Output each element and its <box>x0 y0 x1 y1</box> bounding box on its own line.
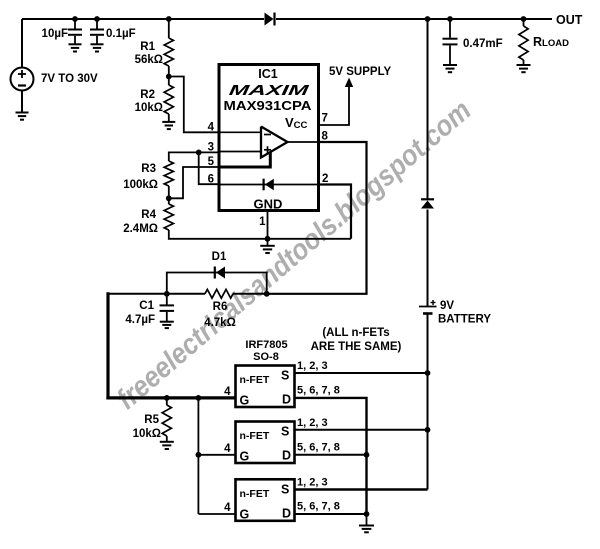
capacitor 10uF <box>68 19 82 44</box>
wire node A to pin4 <box>169 77 219 133</box>
label OUT <box>556 13 583 27</box>
svg-text:n-FET: n-FET <box>240 488 270 500</box>
pin label 8 <box>322 131 329 143</box>
label R5 10k <box>133 428 161 440</box>
wire comparator output to pin8 <box>288 141 320 143</box>
svg-text:4.7µF: 4.7µF <box>125 314 155 326</box>
label 7V TO 30V <box>41 73 98 85</box>
node dot backup diode branch <box>425 16 431 22</box>
node dot 10uF cap <box>72 16 78 22</box>
ground 0.1uF <box>91 44 104 51</box>
pin label 5 <box>208 156 215 168</box>
wire Q1 source <box>295 372 428 374</box>
ground IC pin1 <box>260 246 275 253</box>
pin label 4 Q2 <box>224 443 231 455</box>
wire pin3 to pin6 <box>199 152 219 184</box>
voltage source V1 <box>11 68 34 91</box>
pin label 1,2,3 Q3 <box>297 477 328 489</box>
resistor R4 <box>164 204 173 230</box>
op-amp U1 IC1 box outline <box>219 65 319 211</box>
label 2.4M <box>123 223 158 235</box>
svg-text:10µF: 10µF <box>42 28 68 40</box>
wire R5 top <box>166 398 168 405</box>
ground R2 <box>162 122 175 129</box>
svg-text:n-FET: n-FET <box>240 430 270 442</box>
svg-text:SO-8: SO-8 <box>253 351 279 363</box>
svg-text:10kΩ: 10kΩ <box>133 428 161 440</box>
node dot drain bus Q3 <box>364 511 370 517</box>
label all n-FETs same line1 <box>322 327 389 339</box>
svg-text:n-FET: n-FET <box>240 374 270 386</box>
svg-text:MAX931CPA: MAX931CPA <box>224 98 312 113</box>
node dot 0.47mF cap <box>447 16 453 22</box>
pin label 2 <box>322 173 328 185</box>
svg-text:R4: R4 <box>141 209 156 221</box>
battery B1 9V <box>419 300 437 314</box>
wire source to ground <box>21 91 23 113</box>
transistor Q2 n-FET <box>236 422 295 464</box>
svg-text:VCC: VCC <box>285 115 308 131</box>
svg-text:R2: R2 <box>140 89 155 101</box>
wire R5 to ground <box>166 436 168 442</box>
svg-text:IC1: IC1 <box>258 67 278 81</box>
wire Q1 drain <box>295 398 367 514</box>
diode internal hysteresis <box>264 179 274 191</box>
node dot IC pin1 ground <box>265 236 271 242</box>
wire R4 bottom to pin2 riser <box>169 230 351 239</box>
capacitor 0.1uF <box>90 19 104 44</box>
label 10k <box>135 102 163 114</box>
node B R3-R4 junction <box>166 195 172 201</box>
wire Q2 drain <box>295 454 367 456</box>
pin label 5,6,7,8 Q1 <box>297 385 340 397</box>
label all n-FETs same line2 <box>311 341 402 353</box>
svg-text:1, 2, 3: 1, 2, 3 <box>297 417 328 429</box>
wire pin1 gnd stem <box>267 239 269 246</box>
pin label 4 Q3 <box>224 502 231 514</box>
wire rail to R1 <box>168 19 170 38</box>
node dot C1 <box>164 291 170 297</box>
wire riser to pin2 <box>319 185 351 239</box>
label 4.7uF <box>125 314 155 326</box>
diode D1 <box>215 267 225 279</box>
pin label 7 <box>322 113 328 125</box>
svg-text:7V TO 30V: 7V TO 30V <box>41 73 98 85</box>
ground 0.47mF <box>443 65 457 72</box>
svg-text:S: S <box>281 482 289 496</box>
wire node B to pin5 <box>169 167 219 198</box>
svg-text:8: 8 <box>322 131 329 143</box>
label 56k <box>135 54 163 66</box>
node dot RLOAD <box>521 16 527 22</box>
label 100k <box>123 179 158 191</box>
node dot source Q2 <box>425 427 431 433</box>
wire pin3 to noninverting input <box>219 151 261 153</box>
wire Q3 drain <box>295 513 367 515</box>
diode D2 backup <box>421 199 434 208</box>
wire pin3 to R3 <box>169 152 219 161</box>
label 10uF <box>42 28 68 40</box>
wire battery to source bus <box>427 314 429 490</box>
node dot gate Q2 <box>196 452 202 458</box>
label GND <box>254 197 283 212</box>
label R5 <box>144 414 159 426</box>
svg-text:D: D <box>282 506 291 520</box>
svg-text:G: G <box>240 450 250 464</box>
wire R3 to R4 <box>168 186 170 204</box>
label R2 <box>140 89 155 101</box>
wire D1 loop <box>167 273 267 294</box>
svg-text:3: 3 <box>208 142 214 154</box>
svg-text:G: G <box>240 507 250 521</box>
label 9V <box>440 300 454 312</box>
svg-text:9V: 9V <box>440 300 454 312</box>
svg-text:4: 4 <box>224 386 231 398</box>
svg-text:100kΩ: 100kΩ <box>123 179 158 191</box>
wire R1 to R2 <box>168 66 170 85</box>
wire pin1 stub <box>267 211 269 239</box>
node dot R1 top <box>166 16 172 22</box>
pin label 4 Q1 <box>224 386 231 398</box>
svg-text:C1: C1 <box>139 300 154 312</box>
wire drain ground stem <box>366 514 368 525</box>
label R4 <box>141 209 156 221</box>
svg-text:R5: R5 <box>144 414 159 426</box>
label R3 <box>141 163 156 175</box>
node dot D1 right <box>264 291 270 297</box>
wire gate drive horizontal <box>106 396 235 399</box>
transistor Q3 n-FET <box>236 479 295 521</box>
wire gate Q2 <box>198 454 235 456</box>
resistor RLOAD <box>519 19 528 65</box>
svg-text:(ALL n-FETs: (ALL n-FETs <box>322 327 389 339</box>
svg-text:0.1µF: 0.1µF <box>106 28 136 40</box>
svg-text:D1: D1 <box>212 251 227 263</box>
label IRF7805 <box>245 339 287 351</box>
comparator triangle <box>261 127 288 158</box>
label MAXIM logo <box>228 83 311 99</box>
resistor R1 <box>164 38 173 66</box>
wire pin4 to inverting input <box>219 131 261 133</box>
svg-text:4: 4 <box>224 502 231 514</box>
svg-text:1, 2, 3: 1, 2, 3 <box>297 360 328 372</box>
ground source <box>16 113 29 120</box>
svg-text:R3: R3 <box>141 163 156 175</box>
wire R2 to ground <box>168 114 170 122</box>
svg-text:D: D <box>282 449 291 463</box>
node dot pin3-pin6 tie <box>196 150 202 156</box>
svg-text:R1: R1 <box>140 41 155 53</box>
svg-text:2: 2 <box>322 173 328 185</box>
svg-text:OUT: OUT <box>556 13 583 27</box>
svg-text:5: 5 <box>208 156 215 168</box>
wire Q3 source <box>295 488 428 491</box>
svg-text:GND: GND <box>254 197 283 212</box>
pin label 1,2,3 Q1 <box>297 360 328 372</box>
wire pin5 internal <box>219 152 270 167</box>
label 5V SUPPLY <box>329 66 392 78</box>
resistor R6 <box>205 289 233 298</box>
capacitor 0.47mF <box>443 19 458 65</box>
pin label 5,6,7,8 Q3 <box>297 501 340 513</box>
svg-text:1, 2, 3: 1, 2, 3 <box>297 477 328 489</box>
transistor Q1 n-FET <box>236 366 295 408</box>
pin label 1 <box>259 216 266 228</box>
node dot drain bus Q2 <box>364 452 370 458</box>
wire Q2 source <box>295 429 428 431</box>
pin label 6 <box>208 174 214 186</box>
label IC1 <box>258 67 278 81</box>
label 0.47mF <box>463 38 503 50</box>
label D1 <box>212 251 227 263</box>
wire pin6 internal to pin2 <box>219 184 319 186</box>
svg-text:0.47mF: 0.47mF <box>463 38 503 50</box>
svg-text:ARE THE SAME): ARE THE SAME) <box>311 341 402 353</box>
label VCC <box>285 115 308 131</box>
label RLOAD <box>533 35 569 49</box>
ground R5 <box>160 442 174 449</box>
wire source to rail <box>21 19 23 68</box>
pin label 5,6,7,8 Q2 <box>297 442 340 454</box>
wire pin7 to 5V supply <box>319 84 349 125</box>
resistor R5 <box>162 405 171 436</box>
diode on top rail <box>265 13 275 26</box>
ground RLOAD <box>517 65 531 72</box>
svg-text:R6: R6 <box>213 301 228 313</box>
svg-text:BATTERY: BATTERY <box>438 314 491 326</box>
ground 10uF <box>69 44 82 51</box>
node dot gate bus <box>196 395 202 401</box>
svg-text:5V SUPPLY: 5V SUPPLY <box>329 66 392 78</box>
svg-text:G: G <box>240 394 250 408</box>
node dot R5 <box>164 395 170 401</box>
label C1 <box>139 300 154 312</box>
capacitor C1 <box>160 294 175 322</box>
label R6 <box>213 301 228 313</box>
svg-text:56kΩ: 56kΩ <box>135 54 163 66</box>
pin label 1,2,3 Q2 <box>297 417 328 429</box>
wire R6 to pin8 node <box>233 293 268 295</box>
svg-text:S: S <box>281 369 289 383</box>
svg-text:6: 6 <box>208 174 214 186</box>
svg-text:10kΩ: 10kΩ <box>135 102 163 114</box>
svg-text:S: S <box>281 425 289 439</box>
svg-text:RLOAD: RLOAD <box>533 35 569 49</box>
svg-text:5, 6, 7, 8: 5, 6, 7, 8 <box>297 501 340 513</box>
wire rail to backup diode <box>427 19 429 200</box>
svg-text:IRF7805: IRF7805 <box>245 339 287 351</box>
label BATTERY <box>438 314 491 326</box>
wire pin8 to R6-D1 node <box>268 142 367 294</box>
svg-text:2.4MΩ: 2.4MΩ <box>123 223 158 235</box>
wire gate Q3 <box>198 513 235 515</box>
svg-text:4: 4 <box>208 122 215 134</box>
label 4.7k <box>204 317 236 329</box>
node dot 0.1uF cap <box>94 16 100 22</box>
node A divider <box>166 74 172 80</box>
wire gate drive vertical <box>106 292 109 399</box>
pin label 4 <box>208 122 215 134</box>
wire gate bus vertical <box>197 398 199 514</box>
wire top rail left of diode <box>22 18 264 20</box>
arrow 5V supply <box>345 78 353 88</box>
resistor R3 <box>164 161 173 186</box>
svg-text:4: 4 <box>224 443 231 455</box>
label SO-8 <box>253 351 279 363</box>
wire diode to battery <box>427 210 429 307</box>
svg-text:4.7kΩ: 4.7kΩ <box>204 317 236 329</box>
svg-text:1: 1 <box>259 216 266 228</box>
node dot source Q1 <box>425 370 431 376</box>
svg-text:7: 7 <box>322 113 328 125</box>
label MAX931CPA <box>224 98 312 113</box>
label 0.1uF <box>106 28 136 40</box>
pin label 3 <box>208 142 214 154</box>
wire top rail right of diode <box>276 18 552 20</box>
watermark <box>111 94 478 416</box>
svg-text:MAXIM: MAXIM <box>228 83 311 99</box>
wire C1 node to R6 <box>108 293 205 295</box>
ground drain bus <box>359 526 374 533</box>
svg-text:D: D <box>282 393 291 407</box>
label R1 <box>140 41 155 53</box>
svg-text:5, 6, 7, 8: 5, 6, 7, 8 <box>297 442 340 454</box>
resistor R2 <box>164 85 173 114</box>
svg-text:5, 6, 7, 8: 5, 6, 7, 8 <box>297 385 340 397</box>
ground C1 <box>160 322 174 328</box>
